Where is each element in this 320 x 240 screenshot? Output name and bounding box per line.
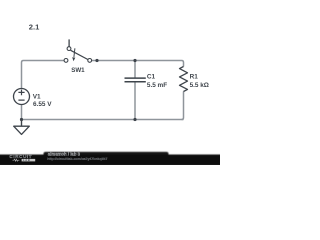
- svg-text:almamoh / lab 3: almamoh / lab 3: [48, 151, 81, 156]
- junction node ground: [20, 118, 23, 121]
- svg-text:SW1: SW1: [71, 67, 85, 74]
- svg-text:5.5 kΩ: 5.5 kΩ: [190, 82, 209, 89]
- wire bottom ground rail: [22, 119, 184, 121]
- SW1 right throw terminal circle: [88, 59, 92, 63]
- junction node C1 top: [133, 59, 136, 62]
- ground symbol: [14, 120, 30, 135]
- wire from V1 + terminal up and right to SW1 left pin: [22, 61, 65, 89]
- svg-text:V1: V1: [33, 93, 41, 100]
- wire R1 bottom to bottom-right corner: [182, 92, 184, 120]
- junction node after SW1: [95, 59, 98, 62]
- wire from SW1 right pin to top-right corner down to R1 top: [92, 61, 184, 67]
- svg-text:2.1: 2.1: [29, 23, 40, 32]
- SW1 actuator arrow: [74, 48, 75, 57]
- svg-text:LAB: LAB: [23, 158, 30, 162]
- voltage source V1: [14, 89, 30, 105]
- junction node C1 bottom: [133, 118, 136, 121]
- wire V1 - terminal down to ground junction: [21, 105, 23, 121]
- CircuitLab logo: [9, 154, 35, 162]
- svg-text:C1: C1: [147, 73, 156, 80]
- svg-text:5.5 mF: 5.5 mF: [147, 82, 167, 89]
- SW1 lever: [71, 50, 89, 59]
- svg-text:http://circuitlab.com/ca2y47bn: http://circuitlab.com/ca2y47bnkq5k7: [47, 157, 107, 161]
- toggle switch SW1: [64, 39, 92, 62]
- capacitor C1: [125, 78, 146, 82]
- wire C1 top branch: [134, 61, 136, 79]
- SW1 left (common) terminal circle: [64, 59, 68, 63]
- SW1 top throw terminal circle: [67, 47, 71, 51]
- wire C1 bottom to ground rail: [134, 82, 136, 120]
- resistor R1: [180, 67, 188, 92]
- SW1 top throw pin stub: [68, 39, 70, 46]
- svg-text:R1: R1: [190, 74, 199, 81]
- svg-text:6.55 V: 6.55 V: [33, 101, 52, 108]
- footer watermark bar: [0, 152, 222, 166]
